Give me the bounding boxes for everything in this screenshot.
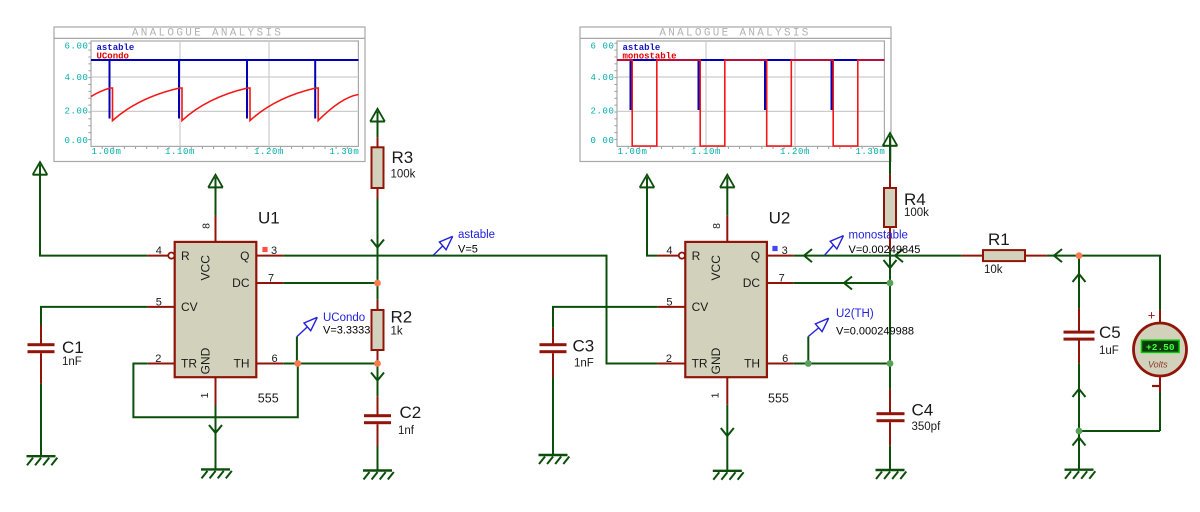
svg-text:GND: GND [198, 347, 212, 374]
svg-text:555: 555 [258, 392, 279, 406]
svg-text:3: 3 [271, 245, 277, 257]
svg-text:1: 1 [199, 392, 211, 398]
svg-text:1nf: 1nf [398, 425, 415, 437]
svg-text:1nF: 1nF [62, 356, 82, 368]
svg-text:R3: R3 [392, 148, 414, 167]
svg-text:4.00: 4.00 [64, 73, 88, 83]
svg-text:ANALOGUE ANALYSIS: ANALOGUE ANALYSIS [659, 27, 810, 39]
svg-text:U2: U2 [769, 208, 791, 227]
svg-text:Q: Q [240, 249, 249, 263]
svg-text:1k: 1k [391, 325, 403, 337]
svg-text:C2: C2 [400, 403, 422, 422]
svg-text:10k: 10k [984, 264, 1003, 276]
svg-text:6 00: 6 00 [590, 42, 614, 52]
svg-text:V=0.000249988: V=0.000249988 [836, 326, 914, 338]
svg-text:8: 8 [200, 223, 212, 229]
svg-text:1.00m: 1.00m [618, 147, 648, 157]
svg-text:7: 7 [779, 272, 785, 284]
svg-text:VCC: VCC [709, 255, 723, 281]
svg-text:DC: DC [743, 276, 761, 290]
svg-text:1.00m: 1.00m [92, 147, 122, 157]
svg-text:R1: R1 [988, 230, 1010, 249]
svg-text:1uF: 1uF [1099, 345, 1119, 357]
svg-text:R2: R2 [391, 307, 413, 326]
svg-text:0.00: 0.00 [64, 136, 88, 146]
svg-text:Q: Q [751, 249, 760, 263]
svg-text:monostable: monostable [849, 229, 908, 241]
svg-text:TH: TH [234, 357, 250, 371]
svg-text:GND: GND [709, 347, 723, 374]
svg-text:DC: DC [232, 276, 250, 290]
svg-text:1nF: 1nF [574, 357, 594, 369]
svg-text:C1: C1 [62, 338, 84, 357]
svg-text:0 00: 0 00 [590, 136, 614, 146]
svg-text:VCC: VCC [198, 255, 212, 281]
svg-text:5: 5 [666, 296, 672, 308]
svg-text:1.20m: 1.20m [780, 147, 810, 157]
svg-text:4: 4 [156, 245, 162, 257]
svg-text:6: 6 [272, 353, 278, 365]
svg-text:TR: TR [692, 357, 708, 371]
svg-text:R: R [181, 249, 190, 263]
svg-text:6.00: 6.00 [64, 42, 88, 52]
svg-text:2.00: 2.00 [590, 107, 614, 117]
svg-text:+: + [1148, 308, 1156, 323]
svg-text:1.10m: 1.10m [165, 147, 195, 157]
svg-text:2.00: 2.00 [64, 107, 88, 117]
svg-text:Volts: Volts [1148, 360, 1168, 370]
svg-text:C5: C5 [1099, 323, 1121, 342]
svg-text:1.30m: 1.30m [855, 147, 885, 157]
svg-text:TH: TH [744, 357, 760, 371]
svg-text:V=5: V=5 [458, 244, 478, 256]
svg-text:2: 2 [666, 353, 672, 365]
svg-text:8: 8 [711, 223, 723, 229]
svg-text:2: 2 [155, 353, 161, 365]
svg-text:+2.50: +2.50 [1146, 342, 1175, 353]
svg-text:C3: C3 [573, 336, 595, 355]
svg-text:350pf: 350pf [912, 421, 942, 433]
svg-text:V=0.00249845: V=0.00249845 [849, 244, 921, 256]
svg-text:U1: U1 [258, 208, 280, 227]
svg-text:astable: astable [458, 229, 495, 241]
svg-text:4.00: 4.00 [590, 73, 614, 83]
svg-text:555: 555 [768, 392, 789, 406]
svg-text:CV: CV [692, 300, 709, 314]
svg-text:3: 3 [782, 245, 788, 257]
svg-text:CV: CV [181, 300, 198, 314]
svg-text:TR: TR [181, 357, 197, 371]
svg-text:100k: 100k [904, 207, 929, 219]
svg-text:C4: C4 [912, 400, 934, 419]
svg-text:V=3.3333: V=3.3333 [323, 325, 370, 337]
svg-text:U2(TH): U2(TH) [836, 308, 874, 320]
svg-text:R: R [692, 249, 701, 263]
svg-text:1.10m: 1.10m [691, 147, 721, 157]
svg-text:ANALOGUE ANALYSIS: ANALOGUE ANALYSIS [132, 27, 283, 39]
svg-text:100k: 100k [391, 168, 416, 180]
svg-text:6: 6 [782, 353, 788, 365]
svg-text:1.30m: 1.30m [329, 147, 359, 157]
svg-text:UCondo: UCondo [323, 312, 365, 324]
svg-text:4: 4 [666, 245, 672, 257]
svg-text:1: 1 [710, 392, 722, 398]
svg-text:5: 5 [156, 296, 162, 308]
svg-text:7: 7 [268, 272, 274, 284]
svg-text:1.20m: 1.20m [254, 147, 284, 157]
